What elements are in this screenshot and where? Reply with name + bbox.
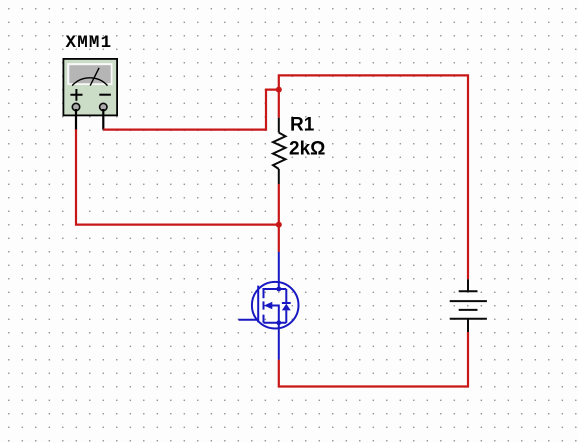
svg-text:R1: R1: [290, 115, 315, 136]
svg-text:XMM1: XMM1: [66, 33, 113, 53]
multimeter XMM1 body: [63, 59, 117, 116]
wire node A to battery + (top rail): [279, 75, 468, 279]
node B: [276, 222, 282, 228]
transistor Q1 NMOS: [239, 252, 299, 360]
XMM1 + lead: [75, 109, 77, 130]
node A: [276, 87, 282, 93]
wire XMM1 + to node B: [76, 129, 279, 224]
Q1 drain junction dot: [276, 287, 281, 292]
wire node A to R1 top: [278, 90, 280, 118]
svg-text:2kΩ: 2kΩ: [289, 139, 325, 160]
Q1 source junction dot: [276, 320, 281, 325]
Q1 body diode triangle: [282, 304, 291, 311]
battery V1: [450, 279, 487, 332]
wire R1 bottom to node B: [278, 184, 280, 225]
XMM1 - lead: [102, 109, 104, 130]
wire Q1 source to battery - (bottom rail): [279, 332, 468, 387]
resistor R1: [273, 118, 286, 184]
XMM1 - terminal: [100, 103, 107, 110]
wire XMM1 - to node A: [103, 90, 278, 130]
Q1 body arrow: [264, 302, 272, 310]
wire node B to Q1 drain: [278, 225, 280, 252]
XMM1 + terminal: [72, 103, 79, 110]
